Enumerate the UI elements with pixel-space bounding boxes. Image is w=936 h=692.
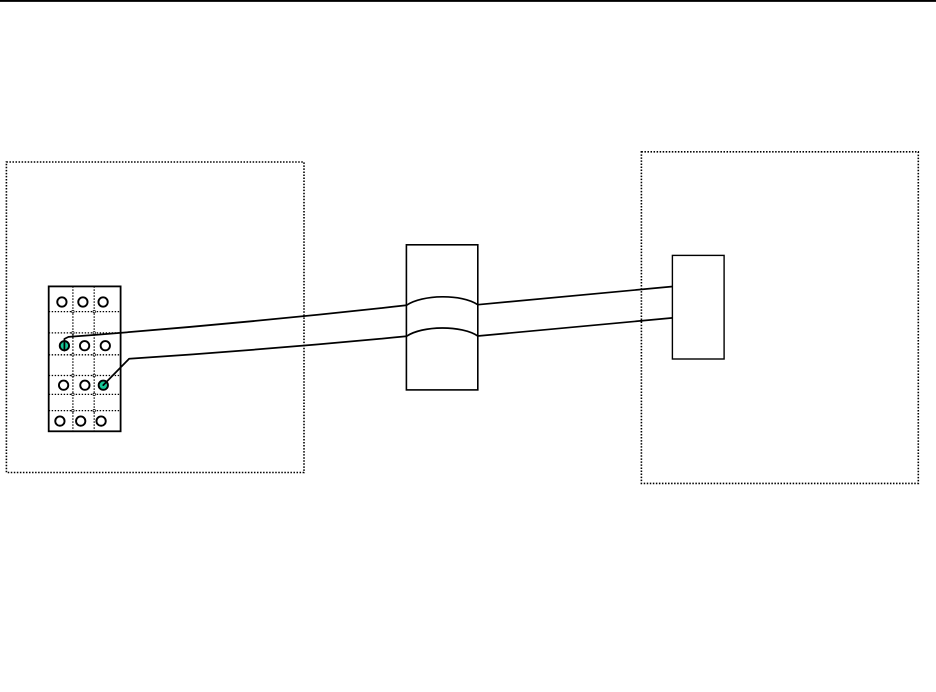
block grid vertical dotted line 2	[93, 286, 95, 431]
block grid horizontal dotted line 2	[49, 332, 121, 334]
wire 1 (upper cable run, left segment)	[64, 305, 406, 350]
zone box left (dotted)	[6, 162, 304, 473]
grid intersection node rings	[72, 310, 96, 412]
wire 1 hop arc inside duct	[406, 297, 477, 305]
wire 2 hop arc inside duct	[406, 328, 477, 336]
punch-down block outline	[49, 286, 121, 431]
wall outlet rectangle	[672, 255, 724, 359]
zone box right (dotted)	[641, 152, 918, 484]
wire 2 (lower cable run, left segment)	[103, 336, 406, 385]
block grid horizontal dotted line 1	[49, 311, 121, 313]
block grid horizontal dotted line 6	[49, 410, 121, 412]
terminal row 4	[55, 416, 106, 425]
wire 1 (right segment to outlet)	[478, 287, 673, 305]
block grid horizontal dotted line 3	[49, 354, 121, 356]
wire 2 (right segment to outlet)	[478, 318, 673, 336]
terminal row 3 (third terminal connected, teal)	[59, 381, 108, 390]
block grid vertical dotted line 1	[72, 286, 74, 431]
terminal row 1	[57, 297, 108, 306]
top separator line	[0, 0, 936, 2]
terminal row 2 (first terminal connected, teal)	[60, 341, 110, 350]
block grid horizontal dotted line 4	[49, 375, 121, 377]
block grid horizontal dotted line 5	[49, 393, 121, 395]
cable duct rectangle	[406, 245, 477, 390]
